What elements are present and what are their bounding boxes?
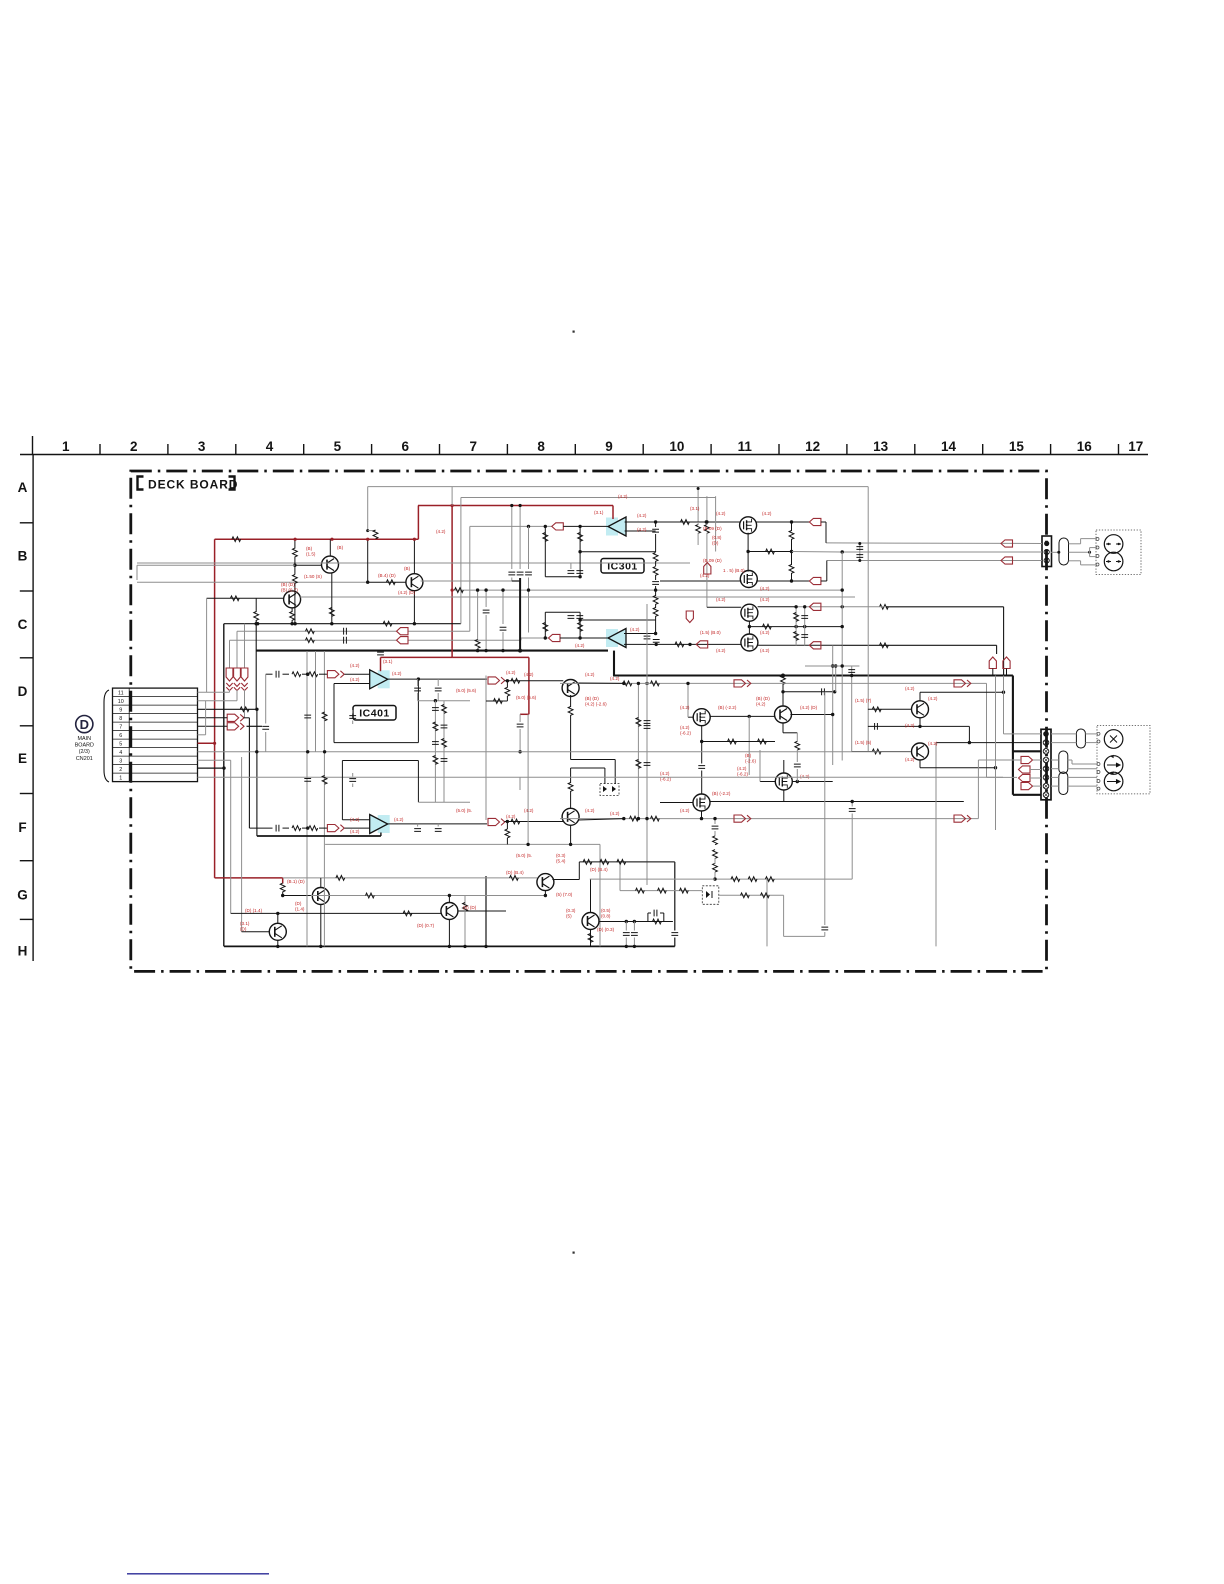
wire xyxy=(706,533,708,607)
junction xyxy=(841,625,844,628)
svg-text:(1.5): (1.5) xyxy=(306,551,316,556)
wire xyxy=(294,565,296,574)
svg-text:(-2.6): (-2.6) xyxy=(745,758,756,763)
wire bus xyxy=(560,818,978,820)
resistor xyxy=(292,672,301,677)
wire xyxy=(198,717,228,719)
capacitor xyxy=(568,616,575,619)
transistor Q4 xyxy=(537,874,554,891)
svg-text:(3.1): (3.1) xyxy=(240,921,250,926)
resistor xyxy=(653,608,658,617)
resistor xyxy=(748,877,757,882)
wire bus xyxy=(613,651,615,676)
resistor xyxy=(658,888,667,893)
resistor xyxy=(505,829,510,838)
wire xyxy=(1068,768,1097,770)
junction xyxy=(222,766,225,769)
resistor xyxy=(306,629,315,634)
wire xyxy=(437,693,439,701)
junction xyxy=(526,843,529,846)
svg-text:2: 2 xyxy=(130,439,138,454)
junction xyxy=(803,625,806,628)
connector CN mid xyxy=(1041,729,1051,800)
svg-text:(5.0) (5.6): (5.0) (5.6) xyxy=(516,695,537,700)
pin xyxy=(1097,732,1100,790)
junction xyxy=(688,643,691,646)
capacitor xyxy=(304,715,311,718)
resistor xyxy=(568,707,573,716)
wire xyxy=(655,534,657,552)
svg-text:(4.2): (4.2) xyxy=(350,677,360,682)
svg-text:D: D xyxy=(80,717,89,732)
wire xyxy=(137,564,295,566)
svg-text:17: 17 xyxy=(1128,439,1143,454)
motor box xyxy=(1096,530,1141,575)
junction xyxy=(255,750,258,753)
transistor Q11 xyxy=(269,923,286,940)
wire xyxy=(920,767,996,769)
svg-text:CN201: CN201 xyxy=(76,756,93,762)
junction xyxy=(323,750,326,753)
wire xyxy=(1051,768,1059,770)
wire xyxy=(791,573,793,581)
capacitor xyxy=(435,829,442,832)
wire xyxy=(511,506,513,570)
capacitor xyxy=(262,726,269,729)
junction xyxy=(1002,691,1005,694)
motor M5 xyxy=(1104,772,1123,791)
svg-text:(4.2) (D): (4.2) (D) xyxy=(398,590,416,595)
wire xyxy=(1003,676,1005,734)
junction xyxy=(713,877,716,880)
signal arrow xyxy=(552,523,564,530)
svg-text:(D) (B.4): (D) (B.4) xyxy=(590,867,608,872)
wire xyxy=(528,526,530,569)
wire xyxy=(544,891,546,896)
wire xyxy=(265,674,267,723)
resistor xyxy=(705,525,710,534)
svg-text:(4.2): (4.2) xyxy=(637,513,647,518)
junction xyxy=(434,699,437,702)
svg-text:(B): (B) xyxy=(306,546,313,551)
resistor xyxy=(455,588,464,593)
capacitor xyxy=(652,529,659,532)
wire xyxy=(619,862,621,891)
wire xyxy=(413,591,415,624)
wire xyxy=(620,861,675,863)
svg-text:1 . 5) (B.0): 1 . 5) (B.0) xyxy=(723,568,745,573)
svg-text:(0.3): (0.3) xyxy=(556,853,566,858)
junction xyxy=(463,945,466,948)
transistor Q9 xyxy=(912,743,929,760)
wire bus xyxy=(315,651,317,752)
wire xyxy=(1003,607,1005,676)
capacitor xyxy=(821,927,828,930)
junction xyxy=(476,588,479,591)
IC401 label xyxy=(353,706,396,721)
wire xyxy=(590,879,592,913)
svg-text:(4.2): (4.2) xyxy=(524,672,534,677)
wire bus xyxy=(137,581,368,583)
resistor xyxy=(761,893,770,898)
svg-text:(B): (B) xyxy=(745,753,752,758)
wire xyxy=(1051,551,1060,553)
wire xyxy=(1051,785,1059,787)
junction xyxy=(633,945,636,948)
wire bus xyxy=(223,624,225,947)
signal arrow xyxy=(809,603,821,610)
resistor xyxy=(578,533,583,542)
svg-text:(4.2): (4.2) xyxy=(905,757,915,762)
wire xyxy=(826,561,828,582)
resistor xyxy=(789,531,794,540)
junction xyxy=(293,564,296,567)
wire bus xyxy=(408,630,470,632)
wire xyxy=(266,673,273,675)
cable xyxy=(1059,772,1068,795)
junction xyxy=(413,622,416,625)
wire xyxy=(701,726,703,742)
transistor Q3 xyxy=(284,591,301,608)
junction xyxy=(569,843,572,846)
svg-text:(B.4) (D): (B.4) (D) xyxy=(378,573,396,578)
svg-text:(4.2): (4.2) xyxy=(350,829,360,834)
junction xyxy=(484,649,487,652)
resistor xyxy=(880,604,889,609)
wire xyxy=(1081,538,1098,540)
wire xyxy=(821,580,827,582)
wire xyxy=(1033,759,1041,761)
FET Q301 xyxy=(740,517,757,534)
svg-text:10: 10 xyxy=(118,699,124,705)
op-amp IC401b xyxy=(378,815,390,833)
junction xyxy=(841,605,844,608)
junction xyxy=(994,766,997,769)
svg-text:(4.2): (4.2) xyxy=(618,494,628,499)
wire xyxy=(756,580,810,582)
wire xyxy=(342,819,369,821)
wire xyxy=(294,539,296,548)
wire xyxy=(352,784,354,788)
junction xyxy=(794,625,797,628)
wire xyxy=(352,710,354,714)
wire xyxy=(655,561,657,566)
svg-text:(4.2): (4.2) xyxy=(800,774,810,779)
svg-text:4: 4 xyxy=(119,750,122,756)
wire xyxy=(796,733,798,742)
junction xyxy=(697,487,700,490)
wire bus xyxy=(461,497,716,499)
wire xyxy=(824,932,826,936)
resistor xyxy=(373,530,378,539)
junction xyxy=(213,742,216,745)
resistor xyxy=(543,533,548,542)
resistor xyxy=(600,860,609,865)
wire bus xyxy=(300,596,855,598)
wire xyxy=(655,575,657,580)
svg-text:(4.2): (4.2) xyxy=(760,648,770,653)
junction xyxy=(484,945,487,948)
transistor Q13 xyxy=(582,913,599,930)
wire xyxy=(244,690,246,718)
wire xyxy=(198,725,228,727)
wire xyxy=(655,586,657,590)
wire xyxy=(334,742,418,744)
wire xyxy=(570,715,572,760)
signal arrow xyxy=(227,714,244,721)
wire xyxy=(784,935,825,937)
wire xyxy=(485,590,487,607)
capacitor xyxy=(875,723,878,730)
resistor xyxy=(696,525,701,534)
junction xyxy=(654,632,657,635)
svg-text:(5.4): (5.4) xyxy=(556,858,566,863)
junction xyxy=(831,664,834,667)
wire xyxy=(230,760,232,913)
wire xyxy=(977,760,979,819)
wire xyxy=(620,890,702,892)
wire xyxy=(868,725,970,727)
svg-text:6: 6 xyxy=(402,439,410,454)
wire xyxy=(257,835,381,837)
capacitor xyxy=(377,652,384,655)
wire xyxy=(325,843,600,845)
wire xyxy=(701,742,703,764)
signal arrow xyxy=(327,671,344,678)
wire xyxy=(451,487,453,506)
wire xyxy=(255,598,257,612)
junction xyxy=(306,750,309,753)
wire xyxy=(755,521,810,523)
svg-text:1: 1 xyxy=(62,439,70,454)
svg-text:7: 7 xyxy=(469,439,477,454)
capacitor xyxy=(652,582,659,585)
svg-text:D: D xyxy=(18,684,28,699)
junction xyxy=(790,579,793,582)
svg-text:2: 2 xyxy=(119,767,122,773)
connector CN top xyxy=(1042,536,1052,567)
wire xyxy=(660,912,664,914)
red wire xyxy=(198,742,215,744)
motor M4 xyxy=(1104,756,1123,775)
wire xyxy=(859,544,861,561)
resistor xyxy=(494,699,503,704)
wire xyxy=(783,760,785,773)
junction xyxy=(622,817,625,820)
junction xyxy=(622,682,625,685)
wire xyxy=(825,522,827,543)
resistor xyxy=(366,893,375,898)
svg-text:(D): (D) xyxy=(295,901,302,906)
resistor xyxy=(511,819,520,824)
junction xyxy=(510,504,513,507)
junction xyxy=(519,504,522,507)
wire xyxy=(1071,760,1073,764)
wire xyxy=(294,557,296,566)
capacitor xyxy=(517,572,524,575)
svg-text:(B): (B) xyxy=(337,545,344,550)
FET Q402 xyxy=(693,794,710,811)
red wire xyxy=(451,506,453,658)
capacitor xyxy=(349,779,356,782)
wire xyxy=(1080,561,1082,565)
junction xyxy=(306,673,309,676)
FET Q304 xyxy=(741,634,758,651)
svg-text:(4.2): (4.2) xyxy=(737,766,747,771)
wire xyxy=(342,760,418,762)
junction xyxy=(476,649,479,652)
svg-text:(B.09 (D): (B.09 (D) xyxy=(703,558,722,563)
junction xyxy=(501,588,504,591)
wire xyxy=(868,708,912,710)
junction xyxy=(841,588,844,591)
wire xyxy=(1085,742,1097,744)
wire xyxy=(506,822,508,830)
junction xyxy=(578,618,581,621)
resistor xyxy=(713,836,718,845)
wire xyxy=(469,526,471,631)
IC301 label xyxy=(601,559,644,574)
wire xyxy=(283,673,290,675)
wire xyxy=(660,580,741,582)
junction xyxy=(276,945,279,948)
wire xyxy=(207,597,284,599)
svg-text:(4.2): (4.2) xyxy=(610,811,620,816)
junction xyxy=(858,542,861,545)
svg-text:(5.0) (5.: (5.0) (5. xyxy=(516,853,532,858)
resistor xyxy=(403,911,412,916)
svg-text:IC301: IC301 xyxy=(607,561,638,573)
capacitor xyxy=(483,610,490,613)
svg-text:(4.2): (4.2) xyxy=(394,817,404,822)
junction xyxy=(451,504,454,507)
wire xyxy=(485,615,487,651)
junction xyxy=(713,817,716,820)
junction xyxy=(518,750,521,753)
wire xyxy=(387,823,487,825)
resistor xyxy=(383,621,392,626)
resistor xyxy=(475,640,480,649)
junction xyxy=(306,673,309,676)
wire xyxy=(421,580,512,582)
resistor xyxy=(433,722,438,731)
wire xyxy=(804,607,806,646)
junction xyxy=(448,945,451,948)
resistor xyxy=(230,596,239,601)
wire xyxy=(996,645,998,654)
wire xyxy=(687,683,689,717)
wire xyxy=(413,539,415,574)
junction xyxy=(637,682,640,685)
resistor xyxy=(651,816,660,821)
wire xyxy=(674,862,676,931)
svg-text:15: 15 xyxy=(1009,439,1025,454)
capacitor xyxy=(435,688,442,691)
capacitor xyxy=(576,616,583,619)
wire xyxy=(229,690,231,692)
wire xyxy=(319,827,327,829)
wire xyxy=(841,552,843,761)
junction xyxy=(518,649,522,653)
deck board border xyxy=(131,471,1047,971)
wire xyxy=(707,606,741,608)
wire xyxy=(545,611,580,613)
wire xyxy=(935,743,937,947)
capacitor xyxy=(801,635,808,638)
wire xyxy=(968,726,970,742)
capacitor xyxy=(276,825,279,832)
junction xyxy=(578,575,581,578)
capacitor xyxy=(849,809,856,812)
svg-text:(4.2): (4.2) xyxy=(680,808,690,813)
wire xyxy=(417,693,419,701)
wire xyxy=(368,530,376,532)
svg-text:(4.2): (4.2) xyxy=(700,573,710,578)
transistor Q10 xyxy=(312,888,329,905)
svg-text:(-6.2): (-6.2) xyxy=(680,730,691,735)
transistor Q12 xyxy=(441,903,458,920)
wire xyxy=(578,682,623,684)
op-amp IC401a xyxy=(378,670,390,688)
wire xyxy=(331,573,333,624)
wire bus xyxy=(842,551,1042,553)
svg-text:(-6.2): (-6.2) xyxy=(737,771,748,776)
red wire xyxy=(452,656,529,658)
wire xyxy=(571,767,605,769)
wire xyxy=(521,637,549,639)
resistor xyxy=(680,888,689,893)
wire xyxy=(570,791,572,809)
resistor xyxy=(636,760,641,769)
wire xyxy=(460,498,462,624)
wire xyxy=(919,692,921,701)
junction xyxy=(281,894,284,897)
svg-text:16: 16 xyxy=(1077,439,1093,454)
capacitor xyxy=(576,571,583,574)
wire xyxy=(486,700,507,702)
wire xyxy=(978,759,1021,761)
wire xyxy=(702,741,775,743)
wire xyxy=(783,895,785,936)
wire xyxy=(291,620,293,624)
wire xyxy=(766,879,768,946)
cable xyxy=(1076,729,1085,748)
wire xyxy=(1006,669,1008,676)
wire xyxy=(520,638,522,640)
resistor xyxy=(653,567,658,576)
resistor xyxy=(290,612,295,621)
red wire xyxy=(520,713,529,715)
wire xyxy=(791,539,793,565)
svg-text:3: 3 xyxy=(119,758,122,764)
svg-text:(4.2): (4.2) xyxy=(905,723,915,728)
resistor xyxy=(872,749,881,754)
pin xyxy=(1096,538,1099,567)
wire xyxy=(552,879,579,881)
junction xyxy=(625,945,628,948)
red wire xyxy=(214,539,216,878)
wire xyxy=(579,526,581,576)
junction xyxy=(527,525,530,528)
wire xyxy=(579,612,581,638)
wire xyxy=(637,683,639,818)
svg-text:(5.0) (5.6): (5.0) (5.6) xyxy=(456,688,477,693)
junction xyxy=(637,817,640,820)
capacitor xyxy=(525,572,532,575)
diode pack xyxy=(702,886,719,905)
wire bus xyxy=(520,776,1003,778)
wire xyxy=(527,714,529,844)
